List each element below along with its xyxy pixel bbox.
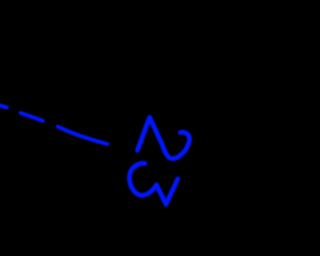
scribble top stroke (lambda with hook) — [137, 117, 189, 159]
dashed line segment 1 — [0, 105, 7, 108]
canvas background — [0, 0, 256, 256]
dashed line segment 3 — [58, 127, 108, 144]
scribble bottom stroke (c + v wave) — [129, 163, 177, 204]
dashed line segment 2 — [21, 113, 43, 121]
